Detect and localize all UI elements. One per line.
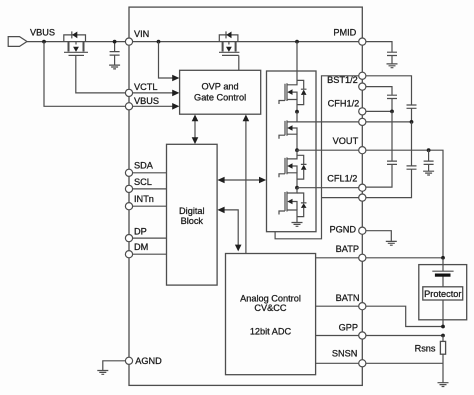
svg-text:SDA: SDA bbox=[134, 161, 154, 171]
wire node2 down to M3 drain bbox=[287, 150, 297, 159]
wire node1 down to M2 drain row bbox=[296, 112, 298, 122]
ground bottom right bbox=[438, 383, 449, 387]
transistor M2 source stub bbox=[287, 134, 297, 150]
junction VOUT cap bbox=[427, 148, 431, 152]
ground inside stack (M4 source) bbox=[292, 223, 303, 227]
pin PMID bbox=[359, 38, 366, 45]
node CFH1 junction bbox=[295, 110, 299, 114]
transistor Q1 diode triangle bbox=[72, 32, 77, 39]
junction BATN / right rail bbox=[441, 325, 445, 329]
svg-text:BST1/2: BST1/2 bbox=[327, 75, 358, 85]
transistor Q1 body arrow bbox=[75, 42, 77, 45]
wire VCTL pin to OVP arrow bbox=[129, 92, 173, 94]
pin CFH1 bbox=[359, 108, 366, 115]
capacitor VOUT stem and plates bbox=[428, 150, 430, 171]
svg-text:BATP: BATP bbox=[336, 244, 359, 254]
svg-text:AGND: AGND bbox=[135, 356, 162, 366]
pin VOUT bbox=[359, 147, 366, 154]
transistor Q1 gate line bbox=[69, 54, 85, 56]
wire DM pin to Digital Block bbox=[129, 253, 167, 255]
svg-text:Block: Block bbox=[181, 216, 204, 226]
FET stack box bbox=[267, 71, 317, 232]
svg-text:12bit ADC: 12bit ADC bbox=[250, 327, 292, 337]
svg-text:PGND: PGND bbox=[329, 224, 356, 234]
junction BATP / right rail bbox=[441, 256, 445, 260]
transistor M3 channel and gate bbox=[279, 157, 287, 177]
pin DM bbox=[125, 251, 132, 258]
transistor M2 body arrow bbox=[290, 128, 297, 134]
transistor Q2 diode triangle bbox=[226, 32, 231, 39]
svg-text:CFL1/2: CFL1/2 bbox=[327, 173, 357, 183]
capacitor CF-B lower plates bbox=[407, 166, 417, 169]
transistor Q2 channel line bbox=[219, 51, 239, 53]
pin BST1 bbox=[359, 72, 366, 79]
transistor M4 body diode bbox=[297, 193, 307, 217]
wire VBUS input to VIN pin bbox=[27, 41, 129, 43]
wire GPP junction to resistor bbox=[442, 336, 444, 342]
wire CFH2 row (M2 drain to CFH2 pin) bbox=[287, 121, 362, 123]
ground for C1 bbox=[109, 65, 120, 69]
wire VOUT row (node2 to VOUT pin) bbox=[297, 149, 362, 151]
junction leg B / CFH2 bbox=[410, 120, 414, 124]
wire CFH1 pin to leg A junction bbox=[362, 110, 392, 112]
transistor Q1 drain/source plates bbox=[69, 42, 84, 52]
wire BST1 pin to flying cap leg B bbox=[362, 76, 411, 122]
svg-text:SCL: SCL bbox=[134, 177, 152, 187]
svg-text:OVP and: OVP and bbox=[202, 82, 239, 92]
arrow wire stack column to Digital Block and to Analog block bbox=[223, 210, 239, 246]
transistor Q1 diode cathode bar bbox=[71, 31, 73, 38]
capacitor CF-A upper plates bbox=[387, 95, 397, 98]
ground for AGND bbox=[97, 371, 108, 375]
wire SNSN pin to resistor bottom and ground bbox=[316, 354, 443, 382]
capacitor PMID plates bbox=[387, 52, 397, 55]
transistor M2 channel and gate bbox=[279, 120, 287, 138]
ground for PMID cap bbox=[387, 64, 398, 68]
pin CFH2 bbox=[359, 118, 366, 125]
svg-text:Rsns: Rsns bbox=[415, 343, 436, 353]
transistor M1 body diode bbox=[297, 80, 307, 104]
pin AGND bbox=[125, 357, 132, 364]
junction C1 on rail bbox=[113, 40, 117, 44]
wire SCL pin to Digital Block bbox=[129, 188, 167, 190]
pin VCTL bbox=[125, 89, 132, 96]
Protector box bbox=[419, 265, 467, 320]
pin INTn bbox=[125, 203, 132, 210]
wire BST1 bootstrap vertical bbox=[275, 76, 362, 239]
OVP and Gate Control block bbox=[180, 70, 261, 114]
wire VOUT pin to right rail bbox=[362, 150, 443, 258]
wire node3 down to M4 drain bbox=[287, 188, 297, 193]
pin DP bbox=[125, 235, 132, 242]
transistor M4 body arrow bbox=[290, 202, 297, 211]
capacitor C1 stem bbox=[114, 42, 116, 65]
bidirectional arrow OVP to Digital Block bbox=[194, 120, 196, 140]
arrow Analog block to OVP block bbox=[245, 121, 247, 254]
wire through protector bbox=[442, 259, 444, 327]
wire Q2 gate to OVP block bbox=[238, 55, 240, 70]
junction rail to OVP sense bbox=[157, 40, 161, 44]
wire GPP pin to right rail bbox=[316, 335, 443, 337]
transistor M3 body arrow bbox=[290, 166, 297, 173]
svg-text:VIN: VIN bbox=[134, 29, 149, 39]
wire Q1 gate to VCTL pin bbox=[76, 55, 129, 93]
wire PMID rail to pin done; external PMID branch bbox=[362, 42, 392, 64]
wire CFL2 row (bootstrap to CFL2 pin) bbox=[322, 197, 363, 199]
wire rail down to M1 drain bbox=[287, 42, 297, 85]
node VOUT junction bbox=[295, 148, 299, 152]
pin VIN bbox=[125, 38, 132, 45]
battery positive plate bbox=[432, 270, 453, 272]
Digital Block bbox=[167, 144, 218, 285]
pin PGND bbox=[359, 227, 366, 234]
wire VBUS node to VBUS pin bbox=[44, 42, 129, 107]
transistor M3 body diode bbox=[297, 155, 307, 179]
transistor M4 channel and gate bbox=[279, 192, 287, 215]
transistor M1 channel and gate bbox=[279, 83, 287, 104]
pin CFL1 bbox=[359, 184, 366, 191]
node CFL1 junction bbox=[295, 186, 299, 190]
pin CFL2 bbox=[359, 194, 366, 201]
capacitor CF-B upper plates bbox=[407, 105, 417, 108]
svg-text:VBUS: VBUS bbox=[134, 96, 159, 106]
pin SCL bbox=[125, 185, 132, 192]
svg-text:Gate Control: Gate Control bbox=[194, 92, 246, 102]
svg-text:Protector: Protector bbox=[424, 289, 461, 299]
transistor Q1 body-diode loop bbox=[64, 35, 86, 42]
svg-text:CFH1/2: CFH1/2 bbox=[328, 99, 360, 109]
svg-text:VBUS: VBUS bbox=[30, 28, 55, 38]
svg-text:Digital: Digital bbox=[179, 206, 205, 216]
svg-text:CV&CC: CV&CC bbox=[254, 303, 287, 313]
transistor Q2 gate line bbox=[222, 54, 239, 56]
bidirectional arrow Digital Block to FET stack bbox=[223, 179, 262, 181]
svg-text:DM: DM bbox=[134, 242, 148, 252]
pin SDA bbox=[125, 169, 132, 176]
transistor M1 body arrow bbox=[290, 92, 297, 99]
VBUS input connector bbox=[8, 37, 27, 47]
capacitor CF-A lower plates bbox=[387, 161, 397, 164]
transistor Q2 drain/source plates bbox=[223, 42, 236, 52]
pin VBUS bbox=[125, 103, 132, 110]
transistor Q1 channel line bbox=[64, 51, 88, 53]
pin BST2 bbox=[359, 83, 366, 90]
junction rail to stack bbox=[295, 40, 299, 44]
pin GPP bbox=[359, 332, 366, 339]
wire AGND pin to ground bbox=[103, 361, 129, 371]
pin SNSN bbox=[359, 360, 366, 367]
transistor M4 source stub bbox=[287, 210, 297, 222]
transistor Q2 body arrow bbox=[228, 42, 230, 45]
svg-text:SNSN: SNSN bbox=[332, 349, 358, 359]
resistor Rsns bbox=[440, 341, 445, 354]
battery negative plate bbox=[435, 274, 451, 277]
wire SDA pin to Digital Block bbox=[129, 172, 167, 174]
wire VBUS pin to OVP arrow bbox=[129, 105, 173, 107]
svg-text:GPP: GPP bbox=[339, 323, 358, 333]
wire DP pin to Digital Block bbox=[129, 237, 167, 239]
IC boundary bbox=[129, 7, 362, 385]
svg-text:DP: DP bbox=[134, 226, 147, 236]
wire rail sense down to OVP input arrow bbox=[159, 42, 173, 78]
junction VBUS node bbox=[42, 40, 46, 44]
transistor M1 source stub bbox=[287, 100, 297, 112]
transistor Q2 body-diode loop bbox=[219, 35, 238, 42]
svg-text:VCTL: VCTL bbox=[134, 82, 158, 92]
wire leg B lower segment bbox=[362, 122, 411, 198]
wire CFH2 pin to leg B junction bbox=[362, 121, 411, 123]
capacitor C1 plates bbox=[110, 52, 120, 56]
transistor Q2 diode cathode bar bbox=[225, 31, 227, 38]
ground for PGND bbox=[386, 241, 397, 245]
wire PGND pin to ground bbox=[362, 231, 391, 242]
svg-text:Analog Control: Analog Control bbox=[240, 294, 301, 304]
Analog Control block bbox=[226, 254, 316, 375]
ground for VOUT cap bbox=[423, 171, 434, 175]
junction GPP / right rail bbox=[441, 334, 445, 338]
wire INTn pin to Digital Block bbox=[129, 205, 167, 207]
wire CFL1 row (node3 to CFL1 pin) bbox=[297, 187, 362, 189]
junction leg A / CFH1 bbox=[390, 110, 394, 114]
pin BATN bbox=[359, 303, 366, 310]
transistor M3 source stub bbox=[287, 173, 297, 188]
wire VIN rail inside IC bbox=[129, 41, 362, 43]
svg-text:BATN: BATN bbox=[336, 293, 360, 303]
wire BST2 pin to flying cap leg A bbox=[362, 87, 392, 112]
wire BATP pin to right rail bbox=[316, 257, 443, 259]
Protector label box bbox=[423, 287, 463, 300]
wire leg A lower segment bbox=[362, 111, 392, 187]
wire BATN pin loop to right rail bbox=[316, 306, 443, 326]
svg-text:PMID: PMID bbox=[333, 27, 356, 37]
pin BATP bbox=[359, 254, 366, 261]
svg-text:VOUT: VOUT bbox=[333, 136, 359, 146]
svg-text:INTn: INTn bbox=[134, 194, 154, 204]
